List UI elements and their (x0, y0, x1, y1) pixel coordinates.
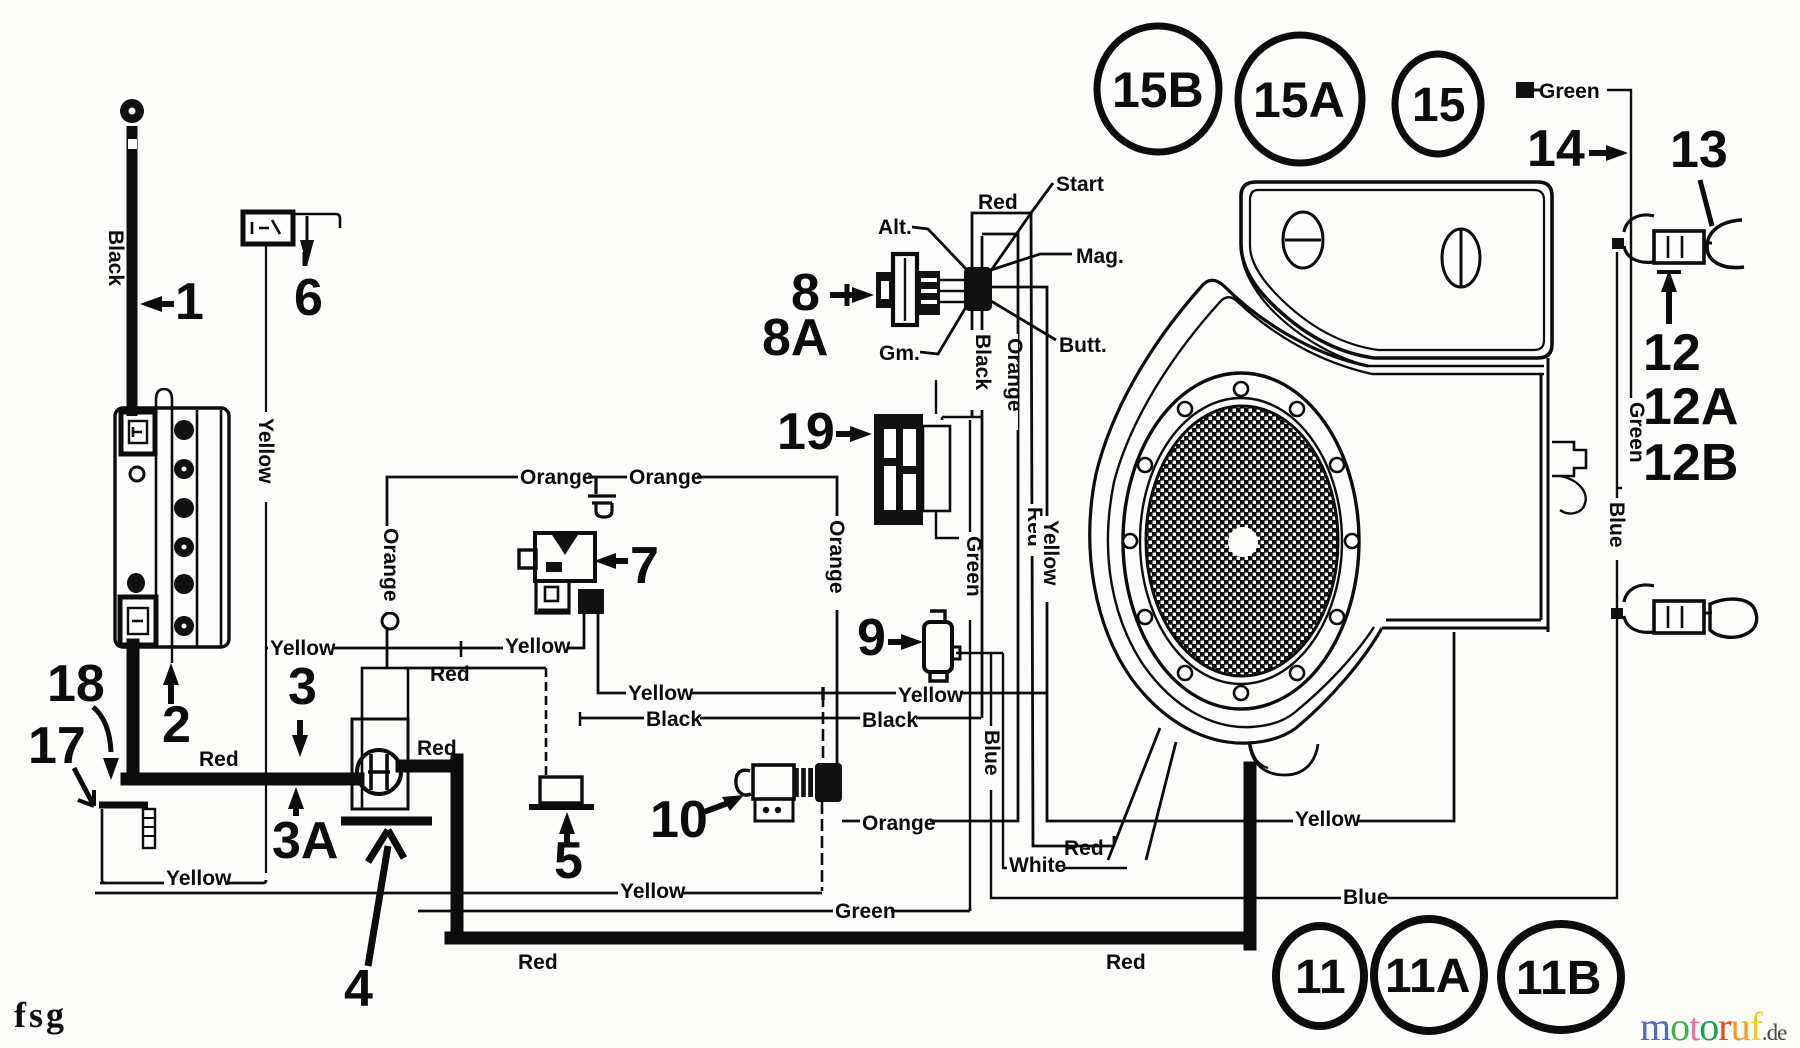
engine 15: right side protrusion (1552, 442, 1586, 476)
fuse 17/18 striped element (143, 809, 155, 848)
fuse 17/18 L-wire (102, 809, 106, 883)
motoruf.de logo (1640, 1004, 1787, 1048)
svg-text:Orange: Orange (379, 528, 402, 602)
label Blue vertical right (1602, 498, 1628, 560)
wire red bus vertical (1031, 213, 1114, 846)
engine 15: dipstick tube diagonals (1108, 728, 1176, 860)
relay 7 bottom band (538, 609, 568, 614)
label Orange vertical bus (1000, 334, 1026, 430)
svg-text:Green: Green (835, 900, 896, 923)
wire red battery cable thick to solenoid (127, 645, 358, 779)
connector 19 right outline box (923, 426, 950, 511)
svg-text:10: 10 (650, 791, 708, 849)
spark connector 13 clamp (1624, 215, 1654, 262)
svg-text:Red: Red (978, 191, 1018, 214)
orange wire terminal circle (382, 613, 398, 629)
svg-text:Blue: Blue (980, 730, 1003, 776)
wire yellow long bottom (95, 892, 822, 895)
yellow A tick (460, 641, 463, 657)
svg-text:Yellow: Yellow (254, 418, 277, 484)
circle 11 (1276, 926, 1364, 1026)
wire black short end tick (579, 712, 582, 726)
svg-text:Yellow: Yellow (620, 880, 686, 903)
engine 15: body top edge double line (1368, 366, 1544, 374)
label Black vertical bus (968, 330, 994, 410)
engine 15: fuel tank outer outline (1241, 182, 1552, 358)
engine 15: blower housing outer ring (1090, 280, 1382, 743)
svg-text:1: 1 (175, 273, 204, 331)
circle 11B (1501, 924, 1621, 1030)
label Green vertical bus (959, 532, 985, 620)
engine 15: tank screw left (horizontal slot) (1283, 212, 1323, 268)
relay 7 body (535, 533, 595, 581)
engine 15: blower housing inner ring (1108, 297, 1374, 727)
interlock switch 10 striped end (794, 768, 813, 797)
ignition node blob (964, 267, 992, 311)
engine 15: flywheel mesh screen (1146, 406, 1338, 676)
svg-text:Blue: Blue (1343, 886, 1389, 909)
callout line to Butt (991, 301, 1056, 340)
connector 6 down arrow (306, 216, 309, 240)
svg-text:11: 11 (1295, 951, 1346, 1004)
wire white from diode 9 (1003, 653, 1127, 868)
circle 15 (1395, 54, 1481, 154)
interlock switch 10 hook (736, 770, 751, 795)
callout line to Mag (991, 254, 1072, 270)
diode 9 right pin (952, 647, 960, 659)
svg-text:Black: Black (646, 708, 702, 731)
label Yellow vertical bus (1036, 516, 1062, 602)
battery 2 stub under center column (171, 647, 173, 663)
orange wire tap connector (top middle) (588, 478, 616, 517)
svg-text:Start: Start (1056, 173, 1104, 196)
wire yellow B junction tick (821, 687, 825, 700)
callout line to Start (990, 183, 1053, 272)
svg-text:Orange: Orange (520, 466, 594, 489)
svg-text:Red: Red (417, 737, 457, 760)
label Orange horizontal 3 (860, 812, 936, 835)
wire red from solenoid top to capacitor 5 (404, 667, 546, 670)
svg-text:12A: 12A (1643, 378, 1738, 436)
ignition switch 8 left cap (876, 272, 894, 308)
wire orange top loop (387, 477, 837, 763)
svg-text:Red: Red (1106, 951, 1146, 974)
svg-text:12: 12 (1643, 324, 1701, 382)
label Yellow A mid (503, 635, 571, 658)
ignition switch 8 tall body (893, 254, 917, 325)
solenoid 4 enclosure (362, 668, 408, 809)
engine 15: flywheel bolts (1123, 382, 1359, 700)
solenoid 4 ground bar (341, 817, 432, 826)
battery 2 bottom terminal box (120, 597, 156, 645)
wire yellow bus vertical (990, 287, 1454, 821)
circle 11A (1374, 919, 1484, 1031)
svg-text:Green: Green (1539, 80, 1600, 103)
svg-text:Blue: Blue (1605, 502, 1628, 548)
relay 7 left tab (519, 550, 536, 568)
solenoid 4 stud circle (357, 750, 401, 794)
engine 15: housing-to-tank joining curve (1243, 262, 1368, 366)
battery 2 small bolt marker (130, 467, 144, 481)
svg-text:Mag.: Mag. (1076, 245, 1124, 268)
wire red dashed down to capacitor 5 (545, 668, 548, 777)
diode 9 body (924, 622, 952, 672)
label Green vertical right (1622, 398, 1648, 490)
engine 15: body right edge (1541, 358, 1548, 632)
engine 15: flywheel center hole (1228, 527, 1258, 557)
svg-text:White: White (1009, 854, 1066, 877)
solenoid 4 body (352, 719, 408, 809)
wire green top right (1607, 90, 1631, 490)
ignition switch 8 comb pins to node (939, 280, 964, 302)
wire green horizontal bottom (418, 908, 970, 911)
battery 2 center column with rounded tab (156, 389, 172, 647)
label Yellow engine right (1293, 808, 1361, 831)
battery 2 cell caps (6 dots) (174, 420, 194, 636)
svg-text:9: 9 (857, 609, 886, 667)
svg-text:3A: 3A (272, 812, 338, 870)
spark connector 12 clamp (1624, 585, 1654, 632)
svg-text:Gm.: Gm. (879, 342, 920, 365)
circle 15B (1097, 26, 1219, 152)
svg-text:Yellow: Yellow (1039, 520, 1062, 586)
label White (1007, 854, 1066, 877)
engine 15: PTO inner arc (1250, 742, 1268, 768)
label Green bottom (833, 900, 896, 923)
svg-text:14: 14 (1527, 120, 1585, 178)
wire yellow B from relay 7 pin down and right (598, 614, 1046, 693)
svg-text:19: 19 (777, 403, 835, 461)
spark connector 13 body (1654, 231, 1704, 263)
label Yellow B 2 (896, 684, 964, 707)
svg-text:Orange: Orange (862, 812, 936, 835)
wire red/start loop top box (972, 213, 1031, 416)
relay 7 lower body (536, 581, 569, 613)
capacitor 5 body (540, 777, 582, 803)
svg-text:Black: Black (862, 709, 918, 732)
svg-text:15B: 15B (1112, 62, 1204, 118)
engine 15: flywheel outer ring (1123, 373, 1359, 709)
svg-text:3: 3 (288, 658, 317, 716)
label Yellow B 1 (626, 682, 694, 705)
relay 7 top notch V (552, 535, 578, 555)
wire blue from diode 9 (956, 252, 1617, 898)
label Yellow vertical item6 wire (251, 412, 277, 502)
svg-text:15: 15 (1412, 79, 1465, 132)
label Green top right with connector blob (1516, 80, 1600, 103)
connector 19 block (874, 414, 923, 525)
svg-text:fsg: fsg (14, 995, 67, 1035)
svg-text:7: 7 (630, 537, 659, 595)
battery 2 cell column lines (197, 410, 221, 646)
connector 19 bottom link (936, 511, 970, 538)
interlock junction blob (815, 763, 842, 802)
svg-text:Orange: Orange (825, 520, 848, 594)
svg-text:Yellow: Yellow (166, 867, 232, 890)
engine 15: fuel tank inner outline (1250, 190, 1544, 350)
svg-text:11A: 11A (1385, 950, 1470, 1003)
svg-text:Alt.: Alt. (878, 216, 912, 239)
label Yellow A left (268, 637, 336, 660)
circle 15A (1238, 35, 1362, 163)
connector 19 top link to buses (935, 380, 937, 414)
spark connector 12 bulb (1710, 599, 1757, 637)
engine 15: tank screw right (vertical slot) (1442, 229, 1480, 287)
interlock switch 10 bottom tab (755, 799, 793, 821)
callout line to Grn (920, 307, 966, 354)
svg-text:Orange: Orange (1003, 338, 1026, 412)
battery 2 top terminal box (121, 412, 155, 454)
svg-text:Black: Black (104, 230, 127, 286)
svg-text:Red: Red (518, 951, 558, 974)
wire black cable crimp notch (128, 139, 137, 149)
svg-text:17: 17 (28, 717, 86, 775)
svg-text:Yellow: Yellow (898, 684, 964, 707)
wire green bus vertical (969, 420, 971, 908)
ring terminal on cable 1 (120, 99, 144, 123)
wire black bus vertical from ignition node (981, 236, 984, 718)
label Orange horizontal 2 (627, 466, 703, 489)
relay 7 inner mark (546, 560, 572, 572)
label Orange horizontal 1 (518, 466, 594, 489)
spark connector 12 body (1654, 601, 1704, 633)
wire dashed vertical at interlock junction (822, 695, 823, 891)
label Orange vertical mid (822, 516, 848, 610)
svg-text:Orange: Orange (629, 466, 703, 489)
svg-text:4: 4 (344, 960, 373, 1018)
engine 15: right side hook (1560, 476, 1586, 513)
battery 2 outline (115, 408, 229, 647)
svg-text:Yellow: Yellow (270, 637, 336, 660)
svg-text:Green: Green (962, 536, 985, 597)
wire black horizontal (580, 717, 981, 720)
svg-text:13: 13 (1670, 121, 1728, 179)
svg-text:Red: Red (430, 663, 470, 686)
label Yellow bottom-left 17/18 (164, 867, 232, 890)
wire yellow A horizontal to relay 7 (266, 612, 584, 648)
wire connector19 to buses corner (942, 417, 982, 420)
connector 6 box (243, 212, 293, 244)
svg-text:12B: 12B (1643, 434, 1738, 492)
engine 15: PTO bump below housing (1249, 742, 1318, 775)
label Black horizontal 1 (644, 708, 702, 731)
capacitor 5 base plate (529, 804, 594, 810)
callout line to Alt (912, 227, 968, 271)
interlock switch 10 body (753, 765, 794, 799)
label Orange vertical left (376, 526, 402, 612)
spark connector 13 C-bulb (1707, 220, 1744, 268)
wire red thick solenoid to engine (402, 760, 1250, 944)
fuse 17/18 bar (99, 802, 148, 809)
ignition switch 8 right comb (917, 271, 940, 315)
svg-text:Red: Red (1064, 837, 1104, 860)
svg-text:Red: Red (199, 748, 239, 771)
svg-text:Butt.: Butt. (1059, 334, 1107, 357)
svg-text:Yellow: Yellow (628, 682, 694, 705)
svg-text:Yellow: Yellow (1295, 808, 1361, 831)
label Black horizontal 2 (860, 709, 918, 732)
svg-text:Yellow: Yellow (505, 635, 571, 658)
label Blue vertical (977, 726, 1003, 790)
svg-text:Black: Black (971, 334, 994, 390)
label Blue bottom right (1341, 886, 1389, 909)
wire orange bus vertical from ignition (842, 234, 1018, 821)
svg-text:15A: 15A (1253, 72, 1345, 128)
engine 15: body bottom edge (1382, 620, 1548, 628)
label Red vertical bus (1020, 504, 1046, 556)
connector 6 top line and hook (293, 214, 340, 228)
wire yellow from connector 6 down (265, 246, 267, 873)
svg-text:2: 2 (162, 696, 191, 754)
battery 2 filled dot (127, 573, 145, 593)
svg-text:11B: 11B (1516, 952, 1601, 1005)
svg-text:6: 6 (294, 269, 323, 327)
svg-text:8A: 8A (762, 309, 828, 367)
relay 7 pin 8B blob (578, 589, 604, 614)
wire black battery cable (item 1, thick) (127, 126, 138, 416)
label Yellow bottom long (618, 880, 686, 903)
arrow for 8 (852, 287, 874, 303)
svg-text:18: 18 (47, 655, 105, 713)
engine 15: flywheel inner ring (1140, 398, 1342, 684)
wire yellow from fuse 17/18 (100, 880, 266, 883)
